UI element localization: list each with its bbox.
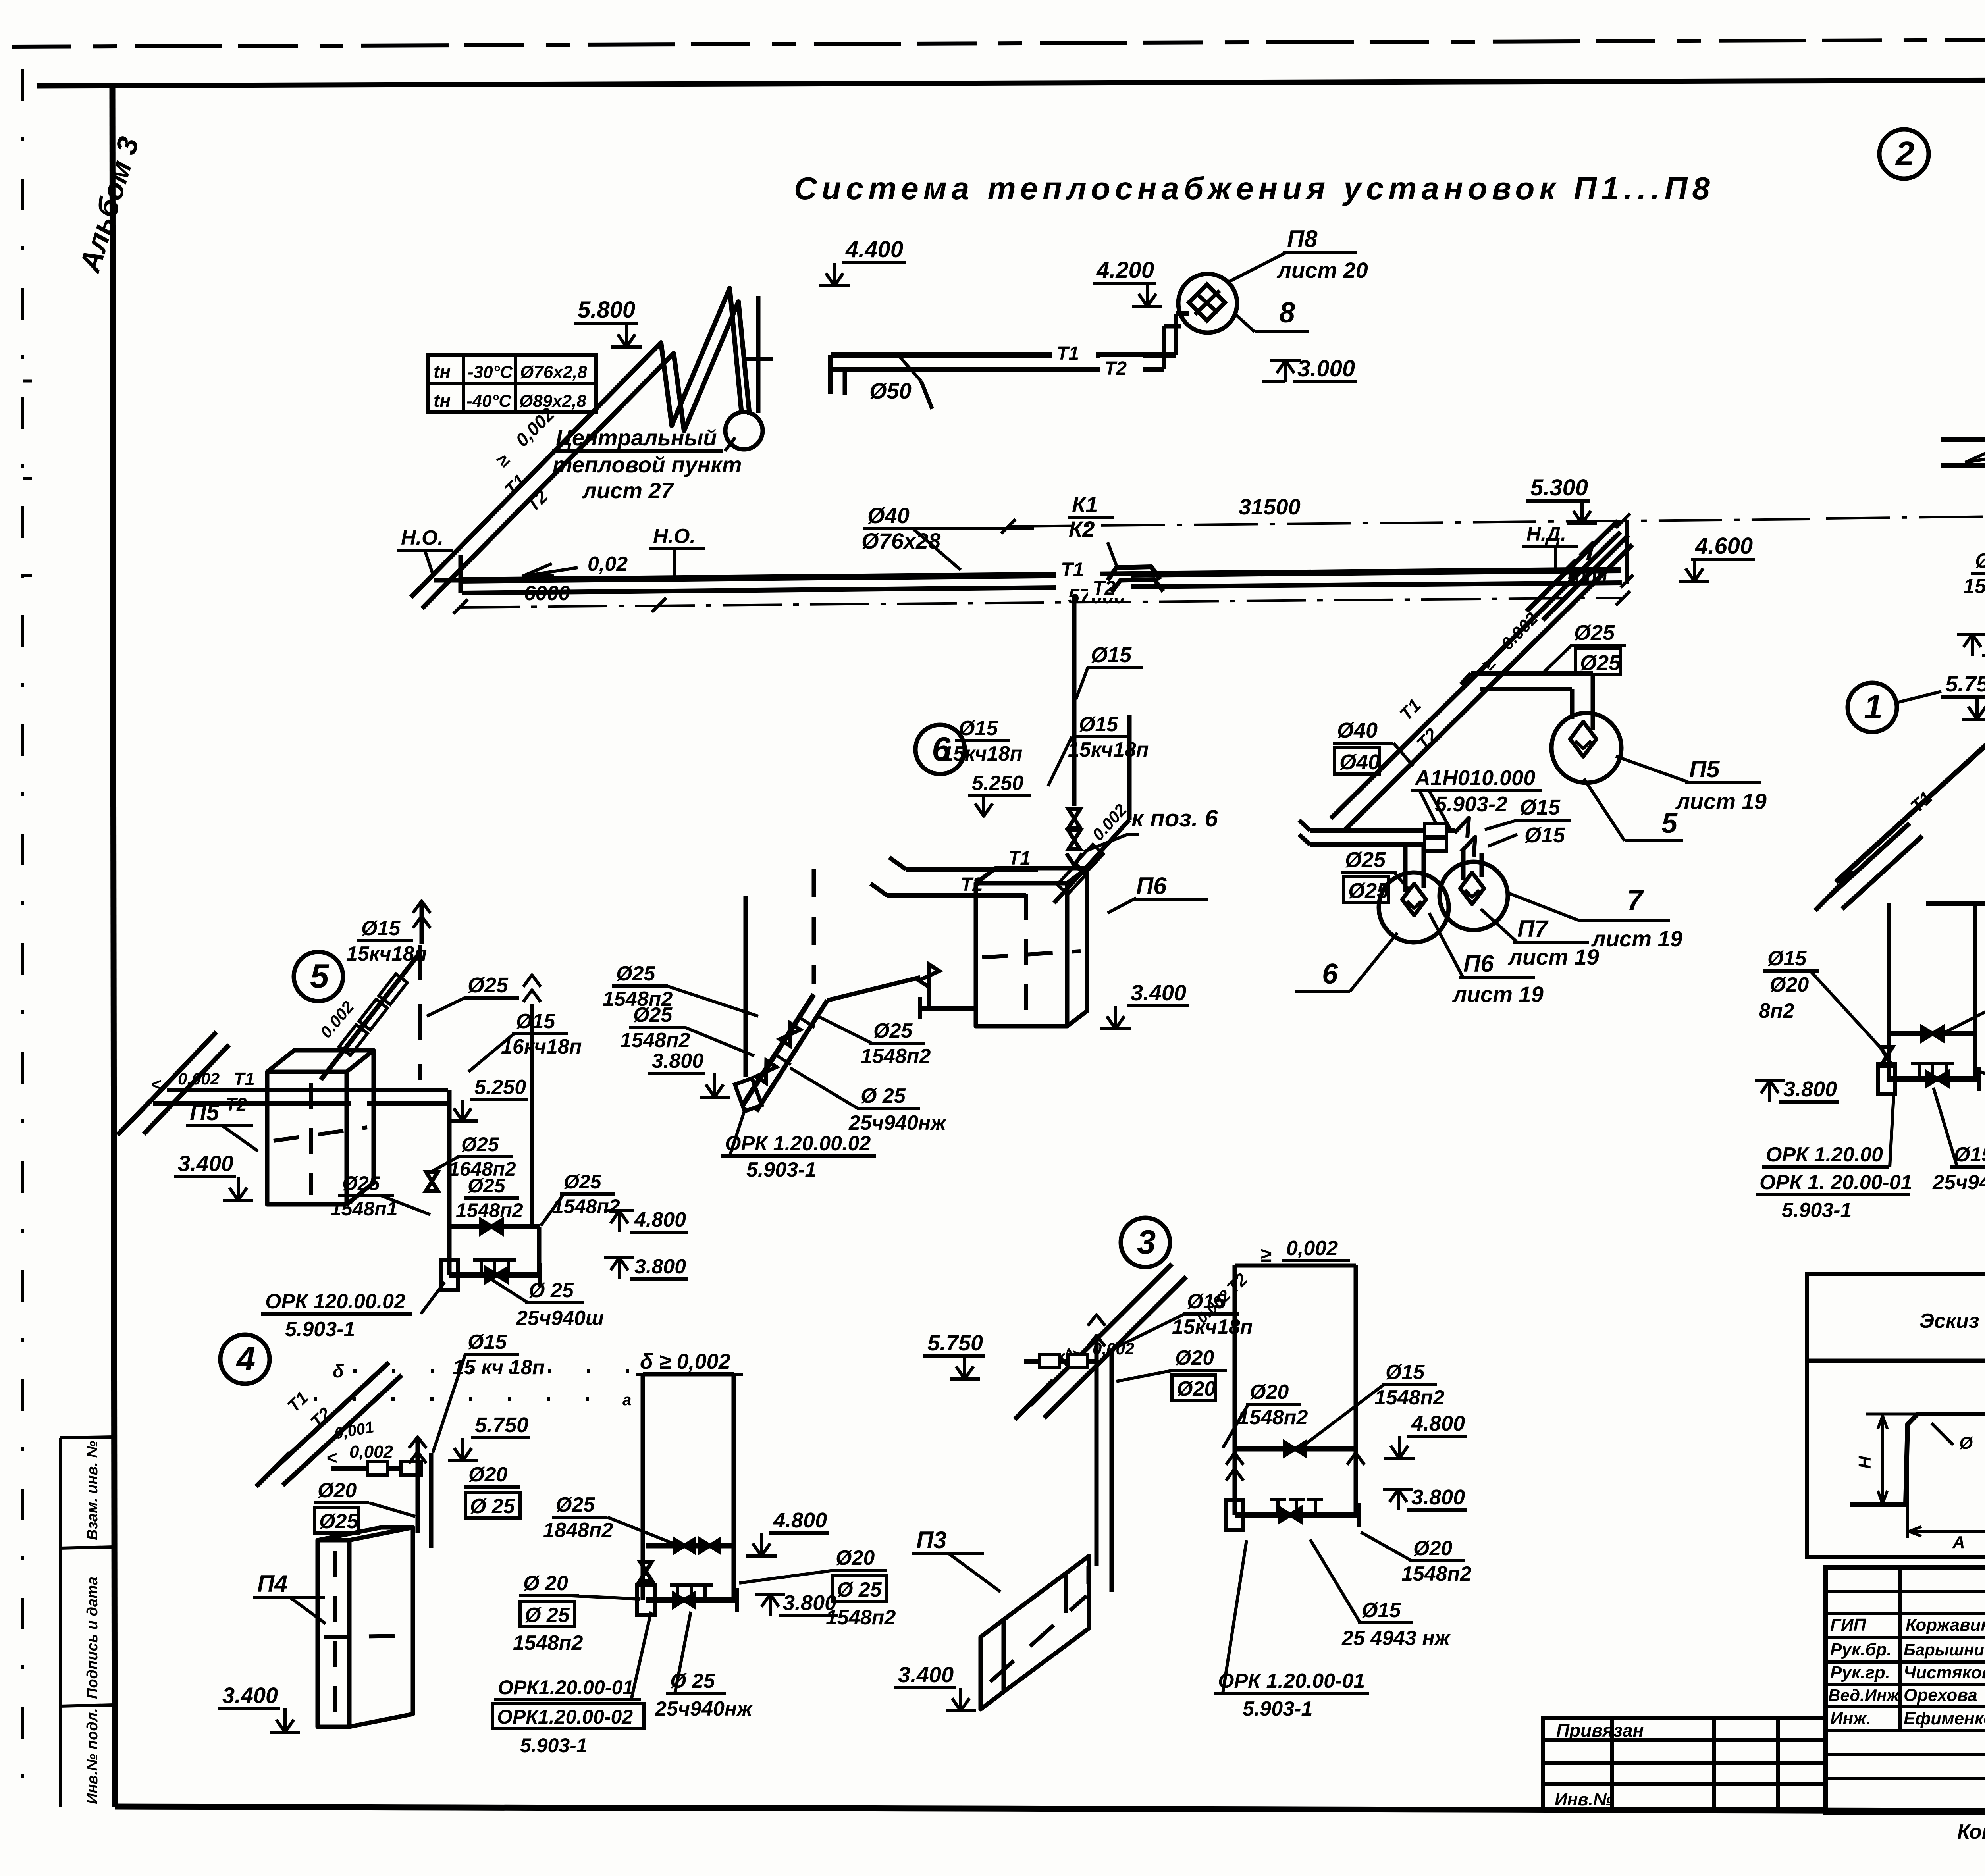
svg-text:Ø 25: Ø 25 [470, 1495, 515, 1518]
svg-text:3.400: 3.400 [898, 1662, 954, 1687]
dimension line under run [461, 598, 1624, 607]
svg-text:лист 19: лист 19 [1452, 982, 1544, 1007]
svg-text:к поз. 6: к поз. 6 [1131, 805, 1218, 832]
svg-text:Ø25: Ø25 [319, 1510, 358, 1533]
manifold ticks and valves [756, 1061, 776, 1083]
node5 T1 horizontal [167, 1088, 448, 1092]
title block outer [1825, 1567, 1985, 1813]
svg-text:Ø25: Ø25 [556, 1493, 595, 1516]
svg-text:Ø 25: Ø 25 [837, 1578, 882, 1601]
П5 unit box [267, 1072, 347, 1204]
svg-text:ОРК1.20.00-02: ОРК1.20.00-02 [497, 1706, 633, 1728]
svg-text:ОРК 1.20.00: ОРК 1.20.00 [1766, 1143, 1883, 1166]
svg-text:1548п2: 1548п2 [456, 1199, 523, 1221]
svg-text:Ø15: Ø15 [361, 917, 401, 940]
svg-text:<: < [326, 1447, 337, 1468]
svg-text:ОРК 1.20.00-01: ОРК 1.20.00-01 [1218, 1670, 1365, 1693]
svg-text:Н.Д.: Н.Д. [1526, 523, 1566, 545]
compensator jog on run [1108, 567, 1160, 580]
pipe T1 diagonal feeder [1331, 532, 1621, 819]
svg-text:5: 5 [1661, 807, 1678, 839]
valve stack top node5 [413, 901, 430, 913]
svg-text:25ч940ш: 25ч940ш [516, 1307, 604, 1330]
node4 4.800 line with valves [646, 1543, 734, 1549]
node5 manifold right vertical [537, 1227, 542, 1275]
svg-text:Ø20: Ø20 [318, 1479, 357, 1502]
node5 T2 horizontal [153, 1101, 448, 1106]
svg-text:Ø25: Ø25 [1345, 848, 1386, 872]
sheet left outer dashed line [21, 69, 24, 1808]
svg-text:Ø40: Ø40 [867, 503, 910, 528]
svg-text:5.903-1: 5.903-1 [1243, 1697, 1312, 1720]
valve node5 right [523, 975, 541, 987]
svg-text:-40°С: -40°С [466, 391, 512, 411]
svg-text:Ефименко: Ефименко [1904, 1709, 1985, 1728]
left stamp strip [59, 1438, 62, 1807]
svg-text:1548п1: 1548п1 [330, 1198, 398, 1220]
svg-text:Ø76х2,8: Ø76х2,8 [520, 362, 587, 382]
svg-text:tн: tн [434, 361, 451, 382]
pipe T1 main horizontal run [461, 570, 1621, 580]
svg-text:5.903-1: 5.903-1 [746, 1158, 816, 1181]
svg-text:П8: П8 [1287, 225, 1318, 252]
svg-text:Ø15: Ø15 [1091, 643, 1132, 667]
svg-text:15кч18п: 15кч18п [1068, 738, 1149, 761]
svg-text:Ø89х2,8: Ø89х2,8 [519, 391, 586, 411]
node4 risers down to box [416, 1439, 420, 1533]
svg-text:Ø50: Ø50 [869, 378, 912, 403]
svg-text:Ø20: Ø20 [836, 1547, 875, 1570]
svg-text:Ø25: Ø25 [1574, 621, 1615, 645]
svg-text:Ø15: Ø15 [1520, 795, 1561, 819]
svg-text:5.300: 5.300 [1530, 475, 1588, 501]
svg-text:П5: П5 [1689, 756, 1720, 782]
svg-text:Ø15: Ø15 [1079, 713, 1118, 736]
node3 right riser loop 0.002 [1235, 1264, 1356, 1268]
svg-text:П5: П5 [190, 1100, 220, 1125]
svg-text:Чистякова: Чистякова [1904, 1663, 1985, 1682]
dotted line row2 [314, 1397, 617, 1401]
П7 diamond symbol [1460, 873, 1484, 904]
svg-text:Т1: Т1 [1061, 559, 1084, 581]
svg-text:5.250: 5.250 [972, 772, 1023, 795]
heat point riser pair [756, 296, 761, 413]
svg-text:6: 6 [932, 730, 951, 768]
svg-text:Ø15: Ø15 [1524, 823, 1565, 847]
svg-text:Инж.: Инж. [1830, 1709, 1871, 1728]
svg-text:лист 19: лист 19 [1675, 789, 1767, 814]
svg-text:5.903-1: 5.903-1 [285, 1318, 355, 1341]
svg-text:Ø20: Ø20 [1413, 1537, 1452, 1560]
svg-text:≥: ≥ [1260, 1244, 1272, 1266]
П8 node circle [1178, 274, 1237, 333]
svg-text:Ø15: Ø15 [516, 1010, 555, 1033]
svg-text:П3: П3 [916, 1527, 947, 1553]
compensator sketch [1850, 1502, 1906, 1507]
svg-text:Инв.№: Инв.№ [1555, 1790, 1613, 1809]
node5 riser vertical top [418, 945, 422, 1080]
svg-text:5.903-2: 5.903-2 [1435, 792, 1507, 816]
svg-text:1: 1 [1864, 688, 1883, 726]
node3 upper manifold 4.800 [1235, 1446, 1356, 1452]
svg-text:лист 19: лист 19 [1507, 944, 1599, 969]
svg-text:ОРК 120.00.02: ОРК 120.00.02 [265, 1290, 405, 1313]
staff table columns [1898, 1567, 1902, 1731]
run end vertical [1625, 521, 1629, 584]
privyazan table [1543, 1718, 1825, 1809]
svg-text:Ø25: Ø25 [342, 1172, 380, 1194]
node3 pipe into box [1087, 1566, 1091, 1584]
svg-text:Т1: Т1 [233, 1069, 255, 1089]
svg-text:5.750: 5.750 [1945, 671, 1985, 696]
svg-text:tн: tн [434, 390, 451, 411]
svg-text:Ø25: Ø25 [616, 962, 655, 985]
svg-text:3: 3 [1137, 1223, 1156, 1261]
svg-text:3.400: 3.400 [222, 1683, 278, 1708]
svg-text:ОРК 1. 20.00-01: ОРК 1. 20.00-01 [1760, 1171, 1912, 1194]
svg-text:Ø15: Ø15 [468, 1331, 507, 1354]
svg-text:5.750: 5.750 [475, 1413, 528, 1437]
node3 manifold lower [1235, 1512, 1359, 1518]
svg-text:Барышников: Барышников [1904, 1640, 1985, 1659]
node5 vertical risers to manifold [447, 1090, 452, 1275]
svg-text:3.800: 3.800 [1783, 1077, 1837, 1101]
П8 diamond symbol [1189, 285, 1225, 321]
svg-text:Инв.№ подл.: Инв.№ подл. [84, 1708, 101, 1804]
valves on pos6 vertical [1068, 809, 1080, 828]
svg-text:Т2: Т2 [225, 1094, 247, 1115]
run end riser diagonal [1526, 521, 1618, 611]
svg-text:Ø15: Ø15 [1187, 1290, 1226, 1313]
svg-text:Т1: Т1 [1057, 343, 1079, 364]
svg-text:Вед.Инж.: Вед.Инж. [1828, 1686, 1904, 1705]
svg-text:Коржавина: Коржавина [1906, 1615, 1985, 1635]
vertical drop to П7 diamond [1461, 849, 1466, 880]
П5 node circle [1551, 713, 1621, 783]
svg-text:Ø25: Ø25 [873, 1019, 913, 1042]
svg-text:3.000: 3.000 [1297, 356, 1355, 381]
svg-text:6000: 6000 [524, 582, 570, 605]
node1 arrival diagonal T1 [1836, 703, 1985, 882]
svg-text:1548п2: 1548п2 [513, 1631, 583, 1655]
svg-text:Рук.гр.: Рук.гр. [1830, 1663, 1890, 1682]
node3 horizontal with fittings [1024, 1359, 1096, 1364]
svg-text:16кч18п: 16кч18п [501, 1035, 582, 1058]
node1 manifold upper [1889, 1031, 1975, 1036]
svg-text:Ø 25: Ø 25 [529, 1279, 574, 1302]
svg-text:25ч940нж: 25ч940нж [848, 1111, 947, 1134]
svg-text:5.903-1: 5.903-1 [1782, 1199, 1852, 1222]
svg-text:1548п2: 1548п2 [1401, 1562, 1471, 1585]
svg-text:δ ≥ 0,002: δ ≥ 0,002 [640, 1350, 730, 1373]
central heat point circle [725, 412, 763, 449]
svg-text:25 4943 нж: 25 4943 нж [1341, 1627, 1451, 1650]
П8 riser step [1174, 314, 1178, 355]
svg-text:А: А [1952, 1533, 1965, 1552]
П6 diamond symbol [1402, 884, 1426, 915]
sheet frame top line [37, 79, 1985, 86]
П3 unit box [1004, 1556, 1089, 1692]
svg-text:Ø25: Ø25 [468, 973, 509, 997]
svg-text:Ø15: Ø15 [1362, 1599, 1401, 1622]
svg-text:3.400: 3.400 [1131, 980, 1186, 1005]
sheet top outer dashed border [12, 38, 1985, 47]
svg-text:15кч18п: 15кч18п [346, 942, 427, 965]
svg-text:Ø15: Ø15 [1954, 1143, 1985, 1166]
branch to П5 horizontal pair [1471, 671, 1593, 676]
svg-text:лист 20: лист 20 [1276, 258, 1368, 283]
svg-text:К2: К2 [1069, 516, 1095, 541]
node circle 2 [1879, 129, 1929, 179]
node1 T2 arrival lines [1829, 823, 1910, 896]
svg-text:5.903-1: 5.903-1 [520, 1734, 588, 1757]
node4 horizontal with fittings [331, 1466, 417, 1471]
svg-text:Эскиз: Эскиз [1919, 1310, 1979, 1333]
svg-text:4: 4 [236, 1340, 255, 1378]
svg-text:Ø25: Ø25 [564, 1171, 602, 1193]
pipe T2 diagonal feeder [1343, 545, 1632, 831]
svg-text:Н.О.: Н.О. [401, 526, 443, 549]
run start verticals [459, 555, 463, 593]
svg-text:15кч18п: 15кч18п [942, 742, 1022, 765]
node1 manifold lower [1887, 1076, 1979, 1082]
svg-text:Ø15: Ø15 [1767, 947, 1807, 970]
dotted line row1 [353, 1369, 635, 1373]
svg-text:Ø: Ø [1959, 1433, 1973, 1453]
svg-text:Ø15: Ø15 [959, 717, 998, 740]
node1 left verticals to manifold [1887, 903, 1891, 1034]
pipe T2 main horizontal run [462, 587, 1056, 593]
pipe T2 parallel diagonal [422, 302, 750, 609]
label Т1 П8 run [1052, 342, 1096, 363]
svg-text:5.750: 5.750 [927, 1330, 983, 1355]
valve stack node4 [409, 1437, 426, 1448]
svg-text:4.800: 4.800 [1411, 1412, 1465, 1435]
svg-text:лист 27: лист 27 [582, 478, 675, 503]
svg-text:1848п2: 1848п2 [543, 1519, 613, 1542]
staff table rows [1825, 1590, 1985, 1593]
svg-text:Ø20: Ø20 [1175, 1346, 1214, 1369]
svg-text:5.800: 5.800 [578, 297, 635, 323]
svg-text:тепловой пункт: тепловой пункт [553, 452, 742, 477]
svg-text:а: а [622, 1391, 631, 1409]
svg-text:7: 7 [1627, 884, 1644, 916]
svg-text:1548п2: 1548п2 [1963, 575, 1985, 598]
svg-text:1548п2: 1548п2 [620, 1029, 690, 1052]
node6 riser verticals [744, 896, 748, 1077]
node6 T1 horizontal [906, 867, 1038, 872]
svg-text:Рук.бр.: Рук.бр. [1830, 1640, 1892, 1659]
svg-text:Ø 25: Ø 25 [861, 1084, 906, 1107]
svg-text:Ø15: Ø15 [1975, 549, 1985, 572]
node1 manifold verticals [1887, 1034, 1891, 1079]
svg-text:-30°С: -30°С [468, 362, 513, 382]
node circle 3 [1121, 1218, 1170, 1267]
svg-text:Т2: Т2 [1104, 358, 1127, 379]
frame bottom line [115, 1807, 1985, 1812]
sketch A dimension [1906, 1461, 1909, 1538]
svg-text:3.800: 3.800 [652, 1050, 703, 1073]
left strip marks [23, 380, 32, 383]
svg-text:Ø40: Ø40 [1339, 750, 1380, 774]
svg-text:П4: П4 [257, 1570, 288, 1597]
svg-text:Ø25: Ø25 [1348, 879, 1389, 903]
svg-text:δ: δ [333, 1361, 344, 1381]
svg-text:3.800: 3.800 [634, 1255, 686, 1278]
branch corner down to П5 [1591, 673, 1595, 730]
svg-text:6: 6 [1322, 958, 1338, 990]
svg-text:4.200: 4.200 [1096, 257, 1154, 283]
pipe T1 to П8 [831, 352, 1176, 358]
label Т1 on run [1056, 559, 1100, 581]
node5 manifold upper line [449, 1224, 540, 1229]
П5 diamond symbol [1570, 722, 1596, 757]
svg-text:К1: К1 [1072, 492, 1098, 517]
svg-text:4.800: 4.800 [634, 1208, 686, 1231]
svg-text:Система теплоснабжения устан: Система теплоснабжения установок П1...П8 [794, 171, 1715, 206]
svg-text:15 кч 18п: 15 кч 18п [453, 1356, 545, 1379]
node5 arrival diagonals [131, 1032, 216, 1121]
svg-text:0.002: 0.002 [178, 1069, 220, 1088]
П4 unit box [318, 1540, 349, 1727]
node5 riser diagonal with compensators [321, 953, 420, 1080]
sketch H dimension [1881, 1414, 1884, 1504]
node circle 6 [915, 725, 965, 774]
svg-text:П6: П6 [1463, 950, 1494, 977]
svg-text:Ø25: Ø25 [468, 1175, 506, 1197]
node1 T2 horizontal mid [1926, 901, 1985, 906]
pipe T1 main diagonal from heat point [411, 288, 742, 597]
svg-text:П7: П7 [1517, 915, 1549, 942]
valves top node3 [1088, 1335, 1105, 1346]
node4 left vertical to manifold [641, 1546, 645, 1600]
svg-text:0,02: 0,02 [588, 553, 628, 576]
node4 manifold lower [646, 1597, 737, 1603]
svg-text:Ø40: Ø40 [1337, 718, 1378, 742]
svg-text:Ø 25: Ø 25 [525, 1604, 570, 1627]
svg-text:25ч943 нж: 25ч943 нж [1932, 1171, 1985, 1194]
svg-text:Копировал Севастьянова: Копировал Севастьянова [1957, 1820, 1985, 1843]
svg-text:1548п2: 1548п2 [861, 1045, 931, 1068]
tn table [428, 355, 596, 412]
svg-text:5: 5 [310, 957, 330, 995]
svg-text:ОРК1.20.00-01: ОРК1.20.00-01 [498, 1676, 634, 1699]
node3 arrival diagonals [1030, 1264, 1172, 1405]
node2 mid horizontal pair [1941, 437, 1985, 442]
svg-text:Ø25: Ø25 [461, 1133, 499, 1156]
svg-text:Н: Н [1855, 1456, 1875, 1469]
node6 riser diagonal with compensators [1127, 715, 1132, 820]
svg-text:Подпись и дата: Подпись и дата [84, 1577, 101, 1699]
svg-text:3.400: 3.400 [178, 1151, 233, 1176]
node6 isometric manifold [743, 994, 814, 1105]
svg-text:2: 2 [1895, 135, 1914, 173]
svg-text:лист 19: лист 19 [1591, 926, 1682, 951]
fitting chevrons on node7 pair [1455, 818, 1469, 838]
svg-text:4.800: 4.800 [773, 1508, 827, 1532]
svg-text:0,002: 0,002 [349, 1442, 393, 1462]
dim 31500 line [1008, 519, 1810, 526]
П6 unit box [976, 883, 1067, 1026]
svg-text:1548п2: 1548п2 [1238, 1406, 1308, 1429]
svg-text:4.400: 4.400 [845, 237, 903, 262]
svg-text:П6: П6 [1136, 873, 1167, 899]
node circle 5 [294, 952, 343, 1001]
svg-text:Привязан: Привязан [1556, 1720, 1644, 1741]
node 6-7 horizontal pair [1310, 828, 1455, 833]
pipe Ø15 vertical to pos 6 [1072, 595, 1077, 806]
svg-text:Ø20: Ø20 [1177, 1377, 1216, 1400]
fitting rects on pair [1424, 824, 1447, 836]
svg-text:5.250: 5.250 [474, 1076, 526, 1099]
svg-text:Н.О.: Н.О. [653, 525, 696, 548]
svg-text:1548п2: 1548п2 [1374, 1386, 1444, 1409]
svg-text:ОРК 1.20.00.02: ОРК 1.20.00.02 [725, 1132, 871, 1155]
П6 node circle [1379, 873, 1449, 942]
svg-text:ГИП: ГИП [1830, 1615, 1867, 1635]
pipe T2 to П8 [832, 367, 1164, 372]
valves node3 mid [1226, 1453, 1243, 1465]
svg-text:А1Н010.000: А1Н010.000 [1414, 766, 1535, 790]
svg-text:Орехова: Орехова [1904, 1685, 1977, 1705]
svg-text:8: 8 [1279, 297, 1295, 329]
node5 manifold lower line [449, 1272, 540, 1278]
svg-text:3.800: 3.800 [1411, 1485, 1465, 1509]
node3 loop to manifold verticals [1233, 1449, 1237, 1515]
svg-text:1548п2: 1548п2 [826, 1606, 896, 1629]
manifold diagonal continuation to П6 box [827, 977, 920, 1000]
svg-text:8п2: 8п2 [1759, 1000, 1794, 1023]
svg-text:0,002: 0,002 [1286, 1237, 1338, 1260]
svg-text:Центральный: Центральный [556, 425, 717, 450]
node circle 1 [1848, 683, 1897, 732]
svg-text:Ø25: Ø25 [633, 1003, 673, 1027]
compensator table grid [1807, 1274, 1985, 1557]
svg-text:Ø20: Ø20 [1770, 973, 1809, 996]
vertical drop to П6 diamond [1403, 845, 1408, 892]
П7 node circle [1440, 862, 1508, 930]
svg-text:Ø25: Ø25 [1580, 651, 1621, 675]
svg-text:Ø 20: Ø 20 [523, 1572, 568, 1595]
svg-text:<: < [151, 1074, 162, 1095]
frame left vertical [112, 85, 115, 1807]
label Т2 on run [1088, 576, 1131, 598]
svg-text:Ø20: Ø20 [1250, 1381, 1289, 1404]
svg-text:Ø15: Ø15 [1386, 1361, 1425, 1384]
label Т2 П8 run [1100, 357, 1143, 378]
svg-text:Т1: Т1 [1008, 848, 1031, 869]
svg-text:1548п2: 1548п2 [553, 1195, 620, 1217]
node4 arrival diagonals [270, 1362, 389, 1473]
svg-text:Взам. инв. №: Взам. инв. № [84, 1441, 101, 1540]
node6 T2 horizontal [887, 893, 1026, 898]
svg-text:25ч940нж: 25ч940нж [655, 1697, 753, 1720]
svg-text:4.600: 4.600 [1695, 533, 1753, 559]
node4 right riser loop [641, 1374, 645, 1546]
svg-text:15кч18п: 15кч18п [1172, 1316, 1253, 1339]
svg-text:Ø20: Ø20 [468, 1463, 507, 1486]
node3 riser pair down [1095, 1337, 1099, 1566]
svg-text:31500: 31500 [1239, 494, 1301, 519]
node circle 4 [220, 1335, 270, 1384]
